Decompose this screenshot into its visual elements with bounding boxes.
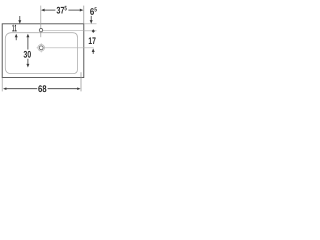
dim 68 right extension line (80, 72, 82, 91)
label 6.5 (90, 8, 94, 15)
tap hole circle (39, 28, 42, 31)
drain leader line (46, 47, 94, 49)
dim 37.5 left arrow (41, 9, 45, 12)
dim 37.5 line left segment (44, 9, 56, 11)
label 17 (89, 37, 96, 44)
drain symbol tick bottom (40, 51, 42, 53)
label 37.5 (57, 7, 65, 14)
dim 68 line right segment (48, 88, 78, 90)
dim 30 up arrow (26, 34, 29, 38)
drain symbol tick left (37, 47, 39, 49)
37.5 left extension line upper (40, 6, 42, 29)
dim 11 up arrow (15, 34, 18, 38)
dim 30 stem upper (27, 37, 29, 50)
dim 11 up arrow stem (15, 37, 17, 40)
drain symbol tick right (44, 47, 46, 49)
drain symbol inner circle (39, 46, 43, 50)
dim 11 down arrow (18, 20, 21, 24)
37.5 left extension line stub below tap (40, 32, 42, 37)
dim 6.5/17 diamond arrows (92, 29, 95, 33)
label 68 (38, 85, 46, 92)
dim 68 left arrow (3, 87, 6, 90)
basin outer outline (2, 24, 84, 78)
tap hole leader line (43, 30, 84, 32)
dim 11 down arrow stem (19, 16, 21, 21)
dim 17 up arrow (92, 48, 95, 52)
dim 30 down arrow (26, 64, 29, 68)
dim 17 up arrow stem (92, 52, 94, 54)
dim 6.5 down arrow (90, 20, 93, 24)
dim 68 line left segment (6, 88, 37, 90)
dim 68 left extension line (1, 78, 3, 92)
dim 37.5 line right segment (68, 9, 80, 11)
right ref line tap level (84, 30, 97, 32)
drain symbol tick top (40, 43, 42, 45)
label 30 (24, 51, 31, 58)
dim 30 stem lower (27, 59, 29, 65)
dim 6.5 down arrow stem (90, 16, 92, 21)
drain symbol outer ring (38, 45, 45, 52)
label 11 (12, 25, 16, 32)
37.5 right extension line above basin (83, 6, 85, 24)
inner bowl outline (5, 33, 77, 74)
dim 68 right arrow (77, 87, 80, 90)
dim 37.5 right arrow (80, 9, 84, 12)
basin top edge gray extension right (84, 23, 97, 25)
